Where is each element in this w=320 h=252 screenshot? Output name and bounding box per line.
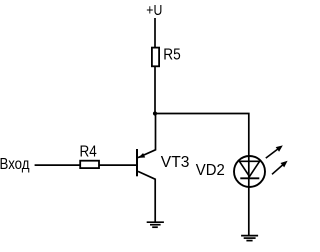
svg-text:VD2: VD2 bbox=[196, 162, 225, 179]
wire +U to R5 bbox=[154, 18, 156, 49]
node A junction dot bbox=[153, 111, 157, 115]
svg-text:R4: R4 bbox=[80, 144, 97, 161]
wire R4 to base of VT3 bbox=[99, 164, 137, 166]
resistor R4 bbox=[80, 161, 99, 168]
LED VD2 wire through circle to ground bbox=[248, 155, 250, 235]
wire R5 to node A bbox=[154, 66, 156, 114]
wire input to R4 bbox=[35, 164, 81, 166]
ground (emitter of VT3) bbox=[147, 222, 164, 227]
svg-text:R5: R5 bbox=[163, 47, 181, 64]
resistor R5 bbox=[152, 48, 159, 67]
wire collector of VT3 to node A bbox=[138, 114, 156, 158]
wire node A to LED (horizontal then down) bbox=[155, 114, 249, 157]
LED VD2 circle bbox=[234, 156, 265, 187]
svg-text:VT3: VT3 bbox=[161, 154, 190, 171]
LED VD2 cathode bar bbox=[240, 177, 259, 179]
svg-text:Вход: Вход bbox=[0, 155, 30, 173]
LED VD2 anode triangle bbox=[239, 161, 259, 176]
transistor VT3 collector arrow (points into base bar) bbox=[138, 153, 145, 158]
transistor VT3 emitter bbox=[138, 171, 155, 221]
LED light arrow 1 (upper) bbox=[266, 145, 283, 158]
ground (LED VD2) bbox=[241, 236, 258, 241]
transistor VT3 base bar bbox=[136, 149, 138, 176]
LED light arrow 2 (lower) bbox=[272, 161, 288, 175]
svg-text:+U: +U bbox=[146, 3, 162, 19]
